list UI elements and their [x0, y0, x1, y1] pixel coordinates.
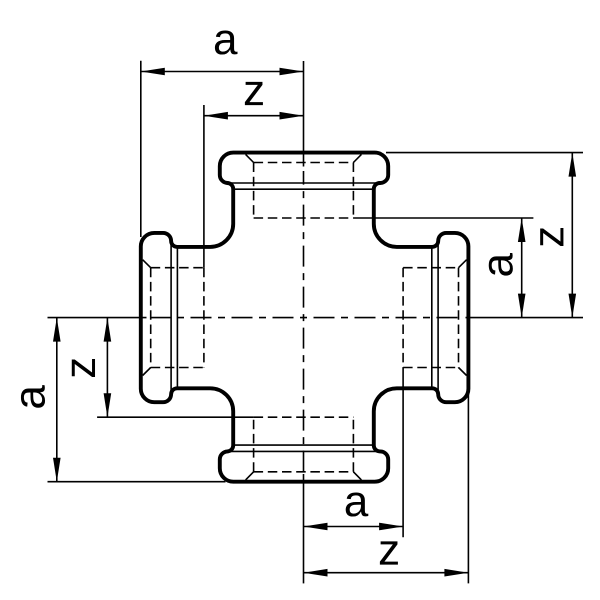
left bead inner edge — [170, 245, 172, 391]
arrow a right down — [518, 294, 526, 318]
right chamfer top — [459, 260, 467, 268]
bottom thread mouth hidden line — [254, 471, 354, 473]
left thread top hidden line — [151, 267, 204, 269]
arrow a bottom right — [379, 523, 403, 531]
ext line bottom z right — [467, 390, 469, 583]
ext line bottom a right — [402, 368, 404, 538]
dim line z right — [571, 153, 573, 318]
arrow a right up — [518, 218, 526, 242]
arrow z right up — [569, 153, 577, 177]
dim line a right — [521, 218, 523, 318]
bottom thread right hidden line — [352, 417, 354, 472]
top neck step — [234, 188, 373, 190]
top thread depth hidden line — [254, 217, 354, 219]
arrow a bottom left — [304, 523, 328, 531]
left thread bottom hidden line — [151, 367, 204, 369]
top thread mouth hidden line — [254, 162, 354, 164]
right thread depth hidden line — [402, 268, 404, 368]
right bead inner edge — [437, 245, 439, 391]
arrow z top left — [204, 112, 228, 120]
bottom chamfer left — [246, 472, 254, 480]
label z top — [245, 82, 263, 105]
left chamfer top — [143, 260, 151, 268]
arrow z bottom right — [444, 569, 468, 577]
dim line z bottom — [304, 572, 469, 574]
left thread depth hidden line — [203, 268, 205, 368]
cross fitting body outline — [141, 153, 469, 482]
bottom chamfer right — [353, 472, 361, 480]
label a top — [215, 30, 238, 54]
ext line left face up — [140, 61, 142, 237]
ext line right z top — [386, 152, 583, 154]
left thread mouth hidden line — [150, 268, 152, 368]
dim line a top — [141, 71, 304, 73]
right neck step — [431, 249, 433, 387]
dim line z top — [204, 115, 304, 117]
ext line center bottom — [303, 474, 305, 583]
top thread left hidden line — [253, 163, 255, 219]
ext line top z left — [203, 105, 205, 268]
label a bottom — [346, 492, 369, 516]
ext line left center — [48, 317, 147, 319]
dim line z left — [106, 318, 108, 418]
arrow a top left — [141, 68, 165, 76]
bottom bead inner edge — [229, 450, 378, 452]
horizontal centerline — [151, 317, 461, 319]
vertical centerline — [303, 171, 305, 473]
ext line left a bottom — [48, 481, 226, 483]
right chamfer bottom — [459, 368, 467, 376]
label a left — [21, 385, 45, 408]
label z right — [540, 228, 563, 246]
arrow z left up — [104, 318, 112, 342]
arrow z top right — [280, 112, 304, 120]
ext line center top — [303, 61, 305, 167]
label z bottom — [380, 541, 398, 564]
top bead inner edge — [229, 182, 378, 184]
left chamfer bottom — [143, 368, 151, 376]
ext line right a top — [353, 217, 533, 219]
right thread bottom hidden line — [403, 367, 458, 369]
left neck step — [176, 249, 178, 387]
top chamfer left — [246, 154, 254, 162]
arrow z right down — [569, 294, 577, 318]
arrow z left down — [104, 393, 112, 417]
arrow a left up — [53, 318, 61, 342]
ext line left z bottom — [97, 416, 254, 418]
label z left — [72, 359, 95, 377]
top thread right hidden line — [352, 163, 354, 219]
ext line right center — [466, 317, 584, 319]
dim line a left — [56, 318, 58, 482]
top chamfer right — [353, 154, 361, 162]
arrow z bottom left — [304, 569, 328, 577]
bottom thread left hidden line — [253, 417, 255, 472]
label a right — [489, 253, 513, 276]
arrow a top right — [280, 68, 304, 76]
bottom neck step — [234, 444, 373, 446]
bottom thread depth hidden line — [254, 416, 354, 418]
right thread top hidden line — [403, 267, 458, 269]
right thread mouth hidden line — [458, 268, 460, 368]
dim line a bottom — [304, 526, 404, 528]
arrow a left down — [53, 458, 61, 482]
